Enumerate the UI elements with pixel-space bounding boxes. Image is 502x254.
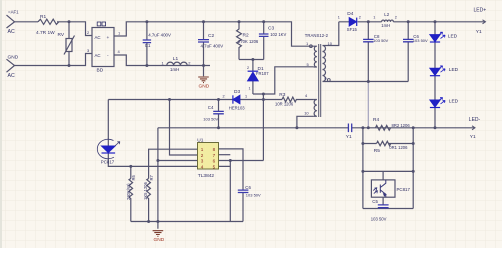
svg-text:7: 7 (213, 153, 216, 158)
svg-text:103 50V: 103 50V (246, 193, 261, 198)
svg-text:=AF1: =AF1 (8, 10, 19, 15)
svg-text:4.7uF 400V: 4.7uF 400V (201, 43, 224, 48)
svg-text:10: 10 (304, 111, 309, 116)
svg-text:103 50V: 103 50V (203, 117, 218, 122)
svg-text:AC: AC (8, 29, 15, 35)
svg-text:R7: R7 (149, 174, 154, 180)
svg-text:AC: AC (8, 73, 15, 79)
svg-text:103 50V: 103 50V (371, 217, 387, 222)
svg-text:GND: GND (199, 84, 210, 90)
svg-text:LED+: LED+ (474, 8, 487, 14)
svg-text:C1: C1 (145, 43, 151, 48)
svg-text:103 50V: 103 50V (413, 38, 428, 43)
svg-text:1mH: 1mH (381, 23, 390, 28)
svg-text:1: 1 (249, 87, 251, 91)
svg-text:10R 1206: 10R 1206 (275, 102, 294, 107)
svg-text:D4: D4 (347, 11, 353, 17)
svg-text:R4: R4 (373, 117, 379, 123)
svg-text:L1: L1 (173, 56, 179, 62)
svg-text:1: 1 (201, 147, 204, 152)
svg-text:1: 1 (338, 15, 340, 19)
svg-text:1K5 1206: 1K5 1206 (143, 181, 148, 200)
svg-text:103 50V: 103 50V (373, 38, 388, 43)
svg-text:U1: U1 (197, 137, 203, 143)
svg-text:PC817: PC817 (101, 159, 115, 164)
svg-text:R2: R2 (243, 32, 249, 38)
svg-text:2: 2 (395, 15, 397, 19)
svg-text:LED: LED (449, 67, 459, 73)
svg-text:270K 1206: 270K 1206 (238, 39, 259, 44)
svg-text:6: 6 (213, 159, 216, 164)
svg-text:4: 4 (201, 164, 204, 169)
svg-text:10: 10 (328, 41, 333, 46)
svg-text:C6: C6 (245, 185, 251, 190)
svg-text:GND: GND (154, 237, 165, 243)
svg-text:C5: C5 (372, 199, 378, 204)
svg-text:0R1 1206: 0R1 1206 (389, 145, 408, 150)
svg-text:Y1: Y1 (470, 134, 476, 140)
svg-text:AC: AC (95, 53, 101, 58)
svg-text:5: 5 (213, 164, 216, 169)
svg-text:SF15: SF15 (347, 27, 358, 32)
svg-text:1: 1 (245, 95, 247, 99)
svg-text:4.7R 1W: 4.7R 1W (36, 30, 55, 36)
svg-text:R5: R5 (374, 148, 380, 154)
svg-text:D3: D3 (234, 89, 240, 95)
svg-text:8R2 1206: 8R2 1206 (392, 123, 411, 128)
svg-text:2: 2 (201, 153, 204, 158)
svg-text:PC817: PC817 (397, 187, 411, 192)
svg-text:230K(W): 230K(W) (126, 183, 131, 200)
svg-text:LED: LED (449, 98, 459, 104)
svg-text:R3: R3 (279, 92, 285, 98)
svg-text:FR107: FR107 (256, 71, 269, 76)
svg-text:AC: AC (95, 35, 101, 40)
svg-text:GND: GND (8, 54, 19, 60)
svg-text:4.7uF 400V: 4.7uF 400V (148, 32, 171, 37)
svg-text:R1: R1 (40, 14, 46, 20)
svg-text:TRANS12-2: TRANS12-2 (305, 33, 329, 38)
svg-text:2: 2 (359, 15, 361, 19)
svg-text:BD: BD (97, 67, 104, 73)
svg-text:HER103: HER103 (229, 105, 245, 110)
svg-text:Y1: Y1 (476, 29, 482, 35)
svg-text:8: 8 (213, 147, 216, 152)
svg-text:R6: R6 (131, 174, 136, 180)
svg-text:C2: C2 (208, 33, 214, 39)
svg-text:2: 2 (223, 95, 225, 99)
svg-text:102 1KV: 102 1KV (270, 32, 286, 37)
svg-text:3: 3 (201, 159, 204, 164)
svg-text:1: 1 (373, 15, 375, 19)
svg-text:RV: RV (58, 32, 65, 38)
svg-text:1mH: 1mH (170, 67, 179, 72)
svg-text:LED: LED (448, 33, 458, 39)
svg-text:C3: C3 (268, 25, 274, 31)
svg-text:2: 2 (247, 66, 249, 70)
svg-text:Y1: Y1 (346, 134, 352, 140)
svg-text:C4: C4 (208, 105, 214, 110)
svg-text:L2: L2 (384, 12, 389, 17)
svg-text:+: + (107, 36, 110, 41)
svg-text:TL3842: TL3842 (198, 173, 215, 179)
svg-text:LED-: LED- (469, 117, 481, 123)
